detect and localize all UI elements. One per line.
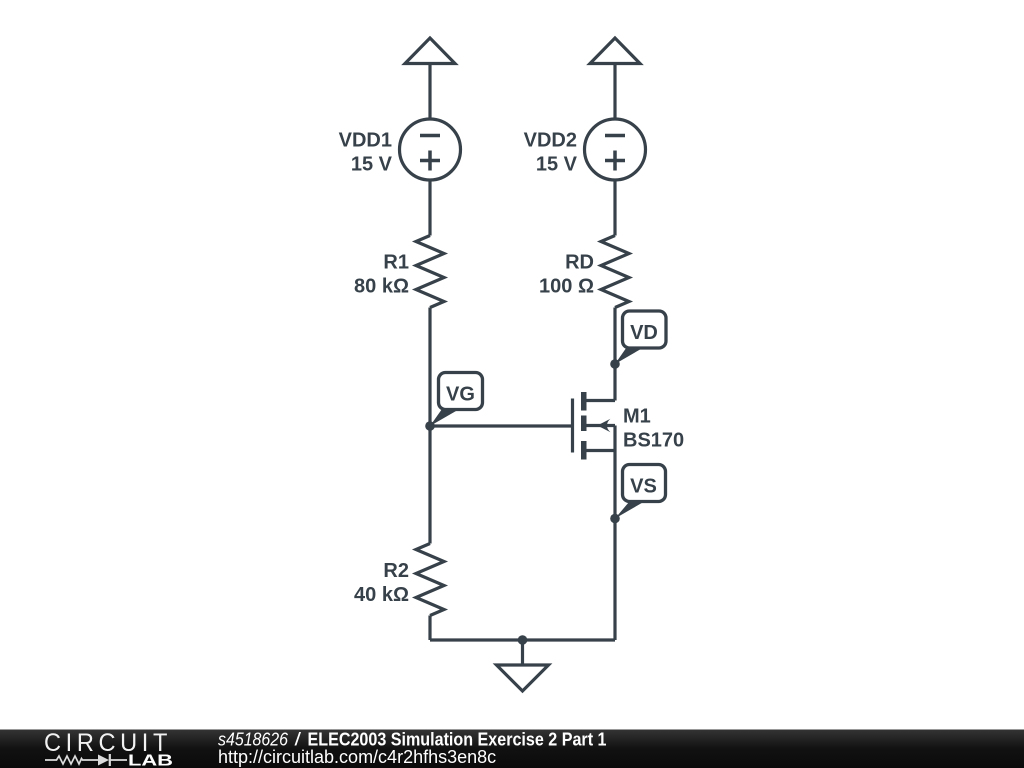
voltage source VDD1 — [400, 119, 461, 180]
wire bottom rail — [430, 638, 615, 641]
wire VDD2 to RD — [613, 180, 616, 236]
svg-text:80 kΩ: 80 kΩ — [354, 276, 409, 298]
CircuitLab logo diode triangle — [98, 755, 109, 766]
label R2 40 kΩ — [354, 560, 409, 606]
label M1 BS170 — [623, 406, 684, 452]
transistor M1 body lead — [587, 424, 616, 427]
node VG callout tail — [430, 409, 460, 426]
svg-text:15 V: 15 V — [536, 154, 578, 176]
resistor R2 — [416, 544, 444, 616]
label R1 80 kΩ — [354, 252, 409, 298]
power flag VDD2 — [590, 38, 640, 120]
label VDD1 15 V — [339, 130, 393, 176]
resistor R1 — [416, 236, 444, 308]
svg-text:15 V: 15 V — [351, 154, 393, 176]
transistor M1 source lead — [587, 449, 616, 452]
svg-text:VG: VG — [446, 384, 475, 406]
svg-text:VDD1: VDD1 — [339, 130, 392, 152]
svg-text:100 Ω: 100 Ω — [539, 276, 594, 298]
node VS callout tail — [615, 502, 644, 519]
label RD 100 Ω — [539, 252, 594, 298]
svg-text:M1: M1 — [623, 406, 651, 428]
label VDD2 15 V — [524, 130, 578, 176]
transistor M1 drain lead — [585, 399, 615, 402]
CircuitLab logo waveform (resistor + diode) — [45, 754, 127, 766]
svg-text:http://circuitlab.com/c4r2hfhs: http://circuitlab.com/c4r2hfhs3en8c — [218, 747, 496, 767]
node VS callout box — [623, 465, 666, 502]
power flag VDD1 — [405, 38, 455, 120]
wire VDD1 to R1 — [428, 180, 431, 236]
svg-text:VD: VD — [630, 322, 658, 344]
node VG callout box — [439, 373, 483, 410]
svg-text:R2: R2 — [383, 560, 409, 582]
resistor RD — [601, 236, 629, 308]
node VG junction dot — [425, 421, 435, 431]
ground — [497, 640, 549, 691]
svg-text:RD: RD — [565, 252, 594, 274]
transistor M1 channel bars — [581, 392, 587, 460]
wire gate (VG node to M1 gate) — [430, 424, 573, 427]
node VS junction dot — [610, 514, 620, 524]
svg-text:R1: R1 — [383, 252, 409, 274]
transistor M1 gate bar — [571, 399, 574, 453]
node VD callout box — [623, 311, 667, 348]
transistor M1 body arrow — [597, 419, 610, 432]
node VD junction dot — [610, 359, 620, 369]
voltage source VDD2 — [585, 119, 646, 180]
wire RD to M1 drain — [613, 308, 616, 401]
ground junction dot — [518, 635, 528, 645]
svg-text:VS: VS — [630, 476, 657, 498]
wire R1 to R2 (left branch) — [428, 308, 431, 544]
wire R2 to bottom rail — [428, 616, 431, 641]
svg-text:VDD2: VDD2 — [524, 130, 577, 152]
svg-text:40 kΩ: 40 kΩ — [354, 584, 409, 606]
svg-text:LAB: LAB — [128, 753, 173, 768]
svg-text:BS170: BS170 — [623, 430, 684, 452]
node VD callout tail — [615, 348, 644, 365]
wire M1 source to bottom rail — [613, 426, 616, 641]
